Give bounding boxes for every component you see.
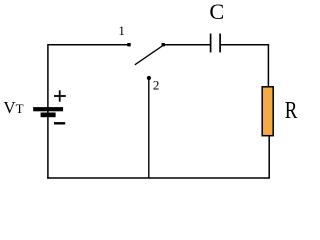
wire bottom (bottom-left corner to bottom-right corner) (47, 177, 269, 179)
node 2 contact dot (147, 76, 151, 80)
svg-text:R: R (285, 98, 298, 124)
battery VT top plate (positive, long bar) (33, 107, 63, 111)
capacitor C left plate (210, 34, 212, 53)
wire right upper (top-right corner to resistor top) (267, 44, 269, 87)
capacitor C right plate (219, 34, 221, 53)
wire right lower (resistor bottom to bottom-right corner) (268, 136, 270, 179)
switch pivot dot (162, 43, 165, 46)
wire switch pivot to capacitor (163, 44, 211, 46)
wire capacitor to top-right corner (220, 44, 269, 46)
svg-text:VT: VT (3, 98, 23, 117)
svg-text:C: C (209, 0, 224, 24)
svg-text:1: 1 (118, 23, 125, 38)
resistor R body (262, 87, 273, 136)
battery minus sign (54, 122, 65, 124)
battery VT bottom plate (negative, short bar) (41, 113, 56, 118)
node 1 contact dot (127, 43, 130, 46)
switch arm (open, between 1 and 2) (135, 45, 163, 65)
battery plus sign (54, 90, 66, 101)
wire middle (node 2 down to bottom wire) (148, 78, 150, 178)
wire left (top-left corner down to bottom-left corner) (47, 44, 49, 179)
svg-text:2: 2 (153, 77, 160, 92)
wire top-left (node 1 to top-left corner) (48, 44, 129, 46)
